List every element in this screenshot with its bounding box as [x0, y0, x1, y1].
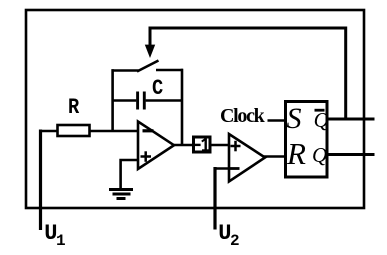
wire comparator inverting input to U2 — [215, 167, 230, 169]
switch S arm — [137, 61, 159, 72]
input terminal U2 wire — [213, 167, 216, 230]
comparator plus sign — [231, 145, 241, 148]
label U2 — [218, 223, 231, 245]
flip-flop R label — [287, 138, 306, 169]
capacitor C plates — [136, 92, 139, 110]
wire U1 to resistor — [39, 130, 58, 133]
wire Q output — [327, 153, 375, 156]
wire op-amp noninverting input to ground — [121, 160, 139, 188]
ground symbol — [109, 188, 133, 191]
op-amp plus sign — [141, 155, 152, 158]
input terminal U1 wire — [39, 130, 42, 231]
flip-flop box — [286, 102, 328, 178]
inverter -1 box — [194, 137, 211, 152]
flip-flop Qbar overbar — [315, 109, 325, 112]
wire inverter to comparator — [210, 144, 230, 147]
capacitor C left lead — [112, 99, 137, 102]
label R — [68, 97, 79, 119]
op-amp minus sign — [143, 129, 154, 132]
flip-flop Qbar label — [314, 110, 329, 131]
op-amp integrator triangle — [138, 122, 174, 170]
wire feedback loop left vertical — [111, 69, 114, 131]
comparator triangle — [229, 134, 265, 182]
wire clock to flip-flop S — [268, 119, 288, 122]
switch S right contact — [156, 69, 183, 72]
label C — [152, 78, 163, 100]
comparator minus sign — [230, 167, 240, 170]
feedback arrowhead — [145, 45, 155, 58]
flip-flop S label — [287, 104, 302, 134]
wire feedback loop right vertical — [181, 69, 184, 145]
wire comparator output to flip-flop R — [263, 155, 287, 158]
resistor R — [58, 125, 90, 136]
flip-flop Q label — [312, 145, 327, 166]
capacitor C right lead — [146, 99, 183, 102]
wire resistor to op-amp inverting input — [90, 130, 140, 133]
switch S left contact — [112, 69, 139, 72]
wire op-amp output to inverter — [172, 144, 194, 147]
label U1 — [44, 223, 57, 245]
label Clock — [220, 106, 264, 126]
inverter -1 value label strokes — [195, 144, 201, 146]
wire Qbar output — [327, 118, 375, 121]
wire feedback Qbar to switch — [150, 28, 346, 119]
